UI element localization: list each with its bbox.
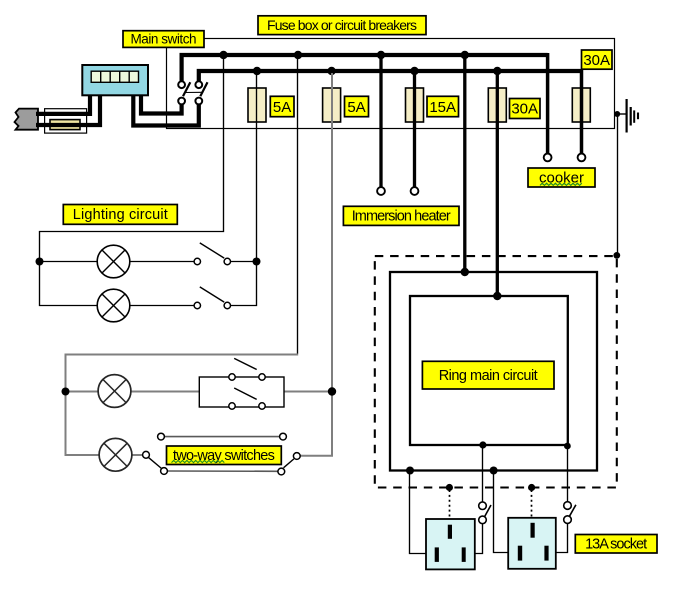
- wire meter to main switch left pole: [141, 95, 182, 114]
- wire lamp2 to switch2: [130, 305, 194, 307]
- switch S1: [194, 243, 230, 265]
- label 13A socket: [575, 535, 657, 554]
- fuse F4 30A: [488, 88, 506, 122]
- svg-text:5A: 5A: [347, 99, 365, 116]
- svg-text:Main switch: Main switch: [131, 32, 197, 47]
- fuse F3 15A: [406, 88, 424, 122]
- svg-text:Lighting circuit: Lighting circuit: [73, 207, 168, 223]
- wire drop lighting1 neutral: [40, 57, 224, 306]
- electricity meter: [82, 65, 148, 95]
- two-way switch right common: [284, 453, 301, 468]
- node ring outer bottom right: [490, 467, 498, 475]
- two-way switch upper rail: [158, 433, 287, 440]
- wire drop cooker live: [546, 53, 550, 153]
- wire socket2 right upper: [567, 448, 569, 502]
- svg-text:30A: 30A: [511, 101, 538, 118]
- wire lighting2 top rail: [66, 355, 299, 456]
- label 30A fuse F4: [510, 99, 541, 119]
- terminal immersion heater 2: [411, 187, 419, 195]
- node lighting1 right: [253, 258, 261, 266]
- fuse F5 30A: [572, 88, 590, 122]
- supply cable: [15, 109, 39, 130]
- wire earth dotted socket2: [531, 490, 533, 522]
- svg-text:Immersion heater: Immersion heater: [352, 209, 451, 225]
- ring main inner box: [410, 296, 568, 445]
- node bus2 fuse F3: [410, 67, 418, 75]
- wire socket1 right lower: [475, 524, 483, 554]
- node bus1 immersion: [377, 51, 385, 59]
- label Main switch: [123, 31, 204, 48]
- fuse box enclosure: [167, 39, 615, 129]
- node bus2 fuse F1: [253, 67, 261, 75]
- svg-text:Ring main circuit: Ring main circuit: [439, 368, 538, 384]
- wire drop lighting2 neutral: [297, 57, 299, 354]
- node lighting1 left: [36, 258, 44, 266]
- wire supply live: [36, 95, 90, 114]
- socket SK1: [426, 519, 475, 569]
- terminal cooker 2: [578, 154, 586, 162]
- wire two-way return: [300, 392, 332, 456]
- node ring inner bottom corner: [564, 443, 571, 450]
- wire socket2 left: [494, 472, 509, 553]
- wire switch box to node: [284, 391, 332, 393]
- wire lighting2 row3 left: [66, 391, 99, 393]
- label Lighting circuit: [63, 205, 177, 225]
- svg-text:15A: 15A: [429, 99, 456, 116]
- label two-way switches: [167, 446, 282, 465]
- service fuse box: [45, 109, 87, 133]
- lamp L2: [97, 289, 130, 322]
- node bus2 fuse F4: [493, 67, 501, 75]
- lamp L3: [98, 375, 131, 408]
- node bus2 fuse F2: [327, 67, 335, 75]
- terminal immersion heater 1: [377, 187, 385, 195]
- switch socket1: [479, 502, 491, 524]
- wire socket1 left: [410, 472, 427, 554]
- node lighting2 right: [328, 387, 336, 395]
- node ring inner top: [493, 292, 501, 300]
- wire socket1 right upper: [482, 447, 484, 502]
- node ring outer bottom left: [406, 467, 414, 475]
- wire lamp1 to switch1: [130, 261, 194, 263]
- wire lamp4 to left common: [132, 454, 143, 456]
- wire earth to ring: [617, 114, 619, 255]
- ring main outer box: [390, 272, 597, 471]
- label cooker: [528, 168, 595, 187]
- wire meter to main switch right pole: [133, 95, 199, 126]
- node bus1 ring: [461, 51, 469, 59]
- node ring inner bottom left: [479, 441, 486, 448]
- label 5A fuse F2: [345, 96, 369, 116]
- label Immersion heater: [343, 206, 459, 225]
- lamp L1: [97, 245, 130, 278]
- two-way switch lower rail: [161, 468, 285, 475]
- wire bus neutral: [199, 71, 582, 82]
- label Fuse box or circuit breakers: [258, 16, 426, 35]
- wire immersion heater live: [379, 57, 382, 187]
- wire socket2 right lower: [556, 524, 568, 553]
- socket SK2: [508, 518, 556, 569]
- svg-text:Fuse box or circuit breakers: Fuse box or circuit breakers: [267, 17, 417, 33]
- wire ring feed neutral via fuse F4: [496, 73, 499, 296]
- fuse F1 5A: [248, 88, 266, 122]
- wire ring feed live: [463, 57, 466, 272]
- service fuse: [50, 120, 80, 130]
- wire immersion heater neutral via fuse F3: [413, 73, 416, 187]
- fuse F2 5A: [323, 88, 341, 122]
- label 15A fuse F3: [427, 96, 459, 116]
- node earth socket1: [446, 484, 453, 491]
- ring main dashed earth box: [375, 256, 617, 487]
- wire earth dotted socket1: [449, 490, 451, 524]
- node earth socket2: [528, 484, 535, 491]
- svg-text:30A: 30A: [583, 52, 610, 69]
- lamp L4: [99, 438, 132, 471]
- two-way switch left common: [143, 451, 162, 468]
- earth symbol: [614, 99, 638, 133]
- node bus1 lighting2: [294, 51, 302, 59]
- terminal cooker 1: [544, 154, 552, 162]
- wire drop cooker neutral via fuse F5: [580, 69, 584, 153]
- wire lamp3 to switch box: [131, 391, 199, 393]
- node lighting2 left: [62, 388, 70, 396]
- label Ring main circuit: [422, 361, 554, 389]
- main switch: [178, 81, 207, 104]
- wire drop lighting2 live via fuse F2: [331, 73, 333, 392]
- wire lighting1 row1 left: [40, 261, 98, 263]
- label 30A fuse F5: [582, 50, 613, 69]
- node bus1 lighting1: [219, 51, 227, 59]
- switch socket2: [564, 502, 576, 524]
- wire supply neutral through service fuse: [36, 95, 100, 125]
- label 5A fuse F1: [270, 96, 294, 116]
- svg-text:5A: 5A: [273, 99, 291, 116]
- node earth at dashed box corner: [613, 252, 620, 259]
- wire switch1 to node: [231, 261, 257, 263]
- node ring outer top: [461, 268, 469, 276]
- wire drop lighting1 live via fuse F1: [256, 73, 258, 262]
- svg-text:13A socket: 13A socket: [585, 537, 647, 553]
- wire lighting1 row2 right: [231, 262, 257, 306]
- switch box double switch: [199, 358, 284, 409]
- switch S2: [194, 287, 230, 309]
- wire bus live: [182, 55, 548, 82]
